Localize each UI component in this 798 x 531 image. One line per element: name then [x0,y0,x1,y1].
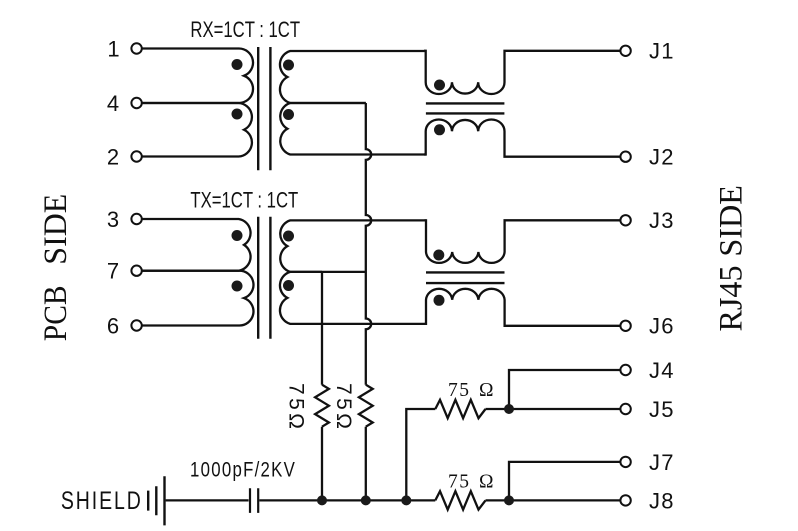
pin 2 terminal [131,151,141,161]
choke L1 RX core [426,103,505,113]
phase dot RX secondary lower [283,109,294,120]
transformer T2 TX secondary winding upper half [280,220,426,272]
J5 terminal [620,404,630,414]
svg-text:J4: J4 [649,358,675,383]
svg-text:Ω: Ω [479,472,494,493]
svg-text:75: 75 [448,380,471,401]
phase dot choke L1 top [434,80,445,91]
resistor R4 75ohm horizontal (J7/J8) [435,491,485,509]
svg-text:2: 2 [107,144,119,169]
J7 terminal [620,457,630,467]
J3 terminal [620,215,630,225]
phase dot choke L1 bottom [434,124,445,135]
transformer T2 TX primary winding lower half (pins 7-6) [142,271,254,326]
svg-text:75: 75 [448,472,471,493]
J8 terminal [620,495,630,505]
resistor R1 75ohm vertical (TX CT) [315,385,329,427]
junction node bus x365.8 [361,495,371,505]
choke L2 TX core [426,272,505,283]
svg-text:J2: J2 [649,145,675,170]
J1 terminal [620,46,630,56]
svg-text:J3: J3 [649,208,675,233]
pin 4 terminal [131,98,141,108]
junction node bus x322 [317,495,327,505]
svg-text:J8: J8 [649,488,675,513]
transformer T2 TX secondary winding lower half [280,272,427,324]
svg-text:J1: J1 [649,39,675,64]
svg-text:PCB: PCB [38,286,74,342]
wire: R1 bottom to bus [321,427,323,501]
wire: shield to capacitor [166,499,249,501]
svg-text:4: 4 [107,91,119,116]
transformer T1 RX core [258,47,270,170]
wire: RX center-tap drop line with hops, down to bus [366,103,371,385]
ground bus wire along bottom [259,499,435,501]
svg-text:3: 3 [107,207,119,232]
wire: R2 bottom to bus [365,427,367,501]
wire: R4 to J8 [486,499,621,501]
pin 6 terminal [131,320,141,330]
svg-text:J6: J6 [649,314,675,339]
pin 7 terminal [131,266,141,276]
phase dot TX secondary upper [283,231,294,242]
shield comb symbol [148,476,164,525]
junction node bus x406.3 [401,495,411,505]
phase dot choke L2 bottom [434,295,445,306]
junction node bus x509 [504,495,514,505]
transformer T2 TX primary winding upper half (pins 3-7) [142,219,251,271]
wire: TX center-tap drop line to bus [321,272,323,385]
phase dot choke L2 top [433,250,444,261]
svg-text:6: 6 [107,313,119,338]
choke L2 TX top winding with rails to J3 [425,220,621,263]
J2 terminal [620,152,630,162]
svg-text:RX=1CT : 1CT: RX=1CT : 1CT [190,18,300,43]
svg-text:75Ω: 75Ω [285,383,308,429]
svg-text:RJ45: RJ45 [714,266,750,332]
J6 terminal [620,321,630,331]
phase dot RX secondary upper [283,60,294,71]
phase dot TX primary lower [232,281,243,292]
transformer T1 RX primary winding lower half (pins 4-2) [142,103,252,157]
resistor R2 75ohm vertical (RX CT) [359,385,373,427]
pin 1 terminal [131,43,141,53]
choke L2 TX bottom winding with rails to J6 [425,289,621,326]
svg-text:TX=1CT : 1CT: TX=1CT : 1CT [190,188,298,213]
transformer T1 RX secondary winding upper half [280,51,426,103]
svg-text:75Ω: 75Ω [332,383,355,429]
phase dot RX primary lower [232,109,243,120]
phase dot TX secondary lower [283,280,294,291]
transformer T2 TX core [258,217,270,339]
phase dot RX primary upper [232,59,243,70]
svg-text:SIDE: SIDE [714,185,750,257]
choke L1 RX top winding with rails to J1 [424,51,620,94]
J4 terminal [620,365,630,375]
choke L1 RX bottom winding with rails to J2 [424,119,620,156]
svg-text:1000pF/2KV: 1000pF/2KV [190,459,296,482]
svg-text:SHIELD: SHIELD [61,487,143,515]
transformer T1 RX primary winding upper half (pins 1-4) [142,48,253,103]
svg-text:J5: J5 [649,397,675,422]
wire: junction up to J4 [509,370,620,409]
resistor R3 75ohm horizontal (J4/J5) [435,400,485,418]
pin 3 terminal [131,214,141,224]
svg-text:SIDE: SIDE [38,194,74,265]
svg-text:1: 1 [107,36,119,61]
junction node R3/J4 [504,404,514,414]
wire: junction up to J7 [509,462,620,501]
transformer T1 RX secondary winding lower half [280,103,426,155]
phase dot TX primary upper [232,230,243,241]
svg-text:Ω: Ω [479,380,494,401]
svg-text:J7: J7 [649,450,675,475]
svg-text:7: 7 [107,259,119,284]
wire: R3 to J5 [486,408,621,410]
capacitor C1 1000pF/2KV plates [250,488,258,513]
wire: bus branch up to R3 row [406,409,435,500]
